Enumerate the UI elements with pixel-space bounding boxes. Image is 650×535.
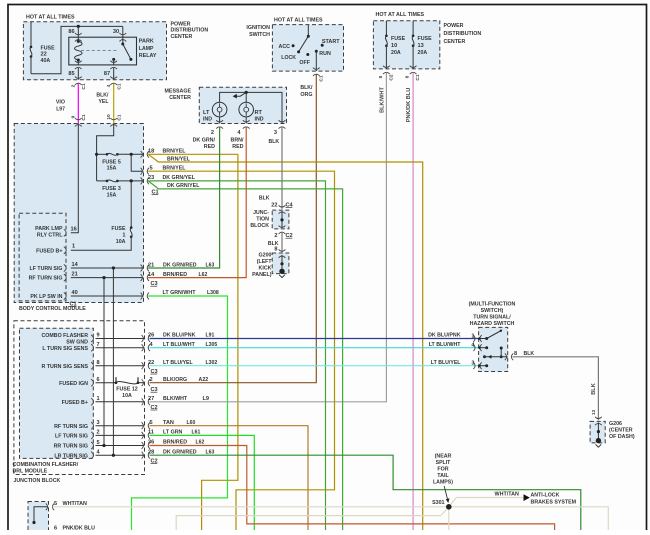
wire relay pin 85 to PDC edge: [77, 68, 79, 80]
svg-text:IND: IND: [255, 116, 264, 122]
svg-text:R TURN SIG SENS: R TURN SIG SENS: [42, 364, 89, 370]
G200 internal wire: [281, 255, 283, 270]
ignition switch arm: [299, 36, 309, 52]
BCM internal wire VIO to park lmp rly ctrl pin 16: [71, 124, 79, 233]
wire 4 LT BLU/WHT L305 to multi-function switch pin 4: [150, 347, 479, 349]
wire RUN contact to box edge: [315, 51, 317, 71]
svg-text:3: 3: [274, 130, 277, 136]
park lamp switch box (bottom left): [28, 502, 49, 532]
svg-text:10A: 10A: [116, 239, 126, 245]
fuse 13 20A: [412, 21, 414, 36]
svg-text:RLY CTRL: RLY CTRL: [37, 233, 63, 239]
svg-text:BRN/RED: BRN/RED: [163, 440, 187, 446]
fuse 10 20A: [385, 21, 387, 36]
svg-text:FOR: FOR: [437, 467, 448, 473]
svg-text:LR TURN SIG: LR TURN SIG: [54, 453, 88, 459]
body control module box: [14, 124, 143, 303]
comb flasher pin 9 COMBO FLASHER SW GND row: [96, 338, 145, 340]
svg-text:BLK/: BLK/: [300, 85, 313, 91]
svg-text:5: 5: [150, 420, 153, 426]
connector at relay pin 30: [119, 33, 126, 41]
svg-text:COMBO FLASHER: COMBO FLASHER: [42, 333, 89, 339]
svg-text:HOT AT ALL TIMES: HOT AT ALL TIMES: [274, 18, 323, 24]
svg-text:ORG: ORG: [300, 92, 312, 98]
wire fuse22 to bus: [31, 26, 123, 73]
svg-text:5: 5: [54, 501, 57, 507]
svg-text:OF DASH): OF DASH): [609, 434, 635, 440]
svg-text:14: 14: [72, 262, 79, 268]
svg-text:LF TURN SIG: LF TURN SIG: [30, 266, 63, 272]
node fuse bus at fuse 5 row: [95, 153, 98, 156]
svg-text:2: 2: [274, 233, 277, 239]
svg-text:10: 10: [391, 43, 397, 49]
svg-text:7: 7: [97, 342, 100, 348]
MFS contact pin 4: [479, 347, 487, 349]
svg-text:FUSED B+: FUSED B+: [36, 248, 63, 254]
arrow to anti-lock brakes system: [524, 494, 530, 501]
lamp RT IND: [239, 102, 254, 117]
svg-text:FUSE: FUSE: [391, 36, 405, 42]
svg-text:L60: L60: [187, 420, 196, 426]
connector BCM C1 exit fuse5 row: [141, 151, 149, 158]
svg-text:LT: LT: [203, 110, 210, 116]
fuse 12 10A: [115, 377, 117, 382]
svg-text:FUSE 5: FUSE 5: [102, 159, 121, 165]
svg-text:L305: L305: [206, 342, 218, 348]
svg-text:2: 2: [150, 377, 153, 383]
connector MFS pin 4: [473, 344, 481, 351]
connector at relay pin 87: [110, 61, 117, 69]
wire bus stub to RT IND: [245, 92, 247, 102]
junction block internal wire: [281, 211, 283, 228]
svg-text:3: 3: [97, 420, 100, 426]
svg-text:IGNITION: IGNITION: [246, 25, 270, 31]
svg-text:5: 5: [150, 165, 153, 171]
svg-text:RUN: RUN: [319, 51, 331, 57]
svg-text:DISTRIBUTION: DISTRIBUTION: [171, 28, 209, 34]
BCM internal branch to pin 5 exit: [131, 154, 143, 171]
svg-text:SWITCH: SWITCH: [249, 32, 270, 38]
svg-text:(CENTER: (CENTER: [609, 428, 633, 434]
connector at fuse 10 output: [383, 66, 390, 74]
wire 26 DK BLU/PNK L91 to multi-function switch pin 1: [150, 338, 479, 340]
svg-text:8: 8: [378, 75, 384, 78]
svg-text:BLK: BLK: [591, 383, 597, 395]
svg-text:CENTER: CENTER: [169, 95, 191, 101]
junction block pass-through box (C4/C2): [272, 210, 289, 229]
svg-text:4: 4: [106, 84, 112, 87]
comb flasher pin 1 FUSED B+ row: [96, 401, 145, 403]
svg-text:L TURN SIG SENS: L TURN SIG SENS: [42, 346, 88, 352]
svg-text:BLOCK: BLOCK: [250, 223, 269, 229]
wire relay pin 87 to PDC edge: [113, 68, 115, 80]
svg-text:FUSE: FUSE: [111, 226, 125, 232]
svg-text:RED: RED: [232, 144, 243, 150]
svg-text:PNK/DK BLU: PNK/DK BLU: [63, 526, 95, 530]
wire BLK msg center pin 3 to junction block: [281, 127, 283, 209]
wire DK GRN/YEL branch to bottom: [148, 181, 342, 530]
svg-text:11: 11: [148, 430, 154, 436]
svg-text:HOT AT ALL TIMES: HOT AT ALL TIMES: [376, 12, 425, 18]
connector at relay pin 85: [75, 61, 82, 69]
fuse 1 10A and wire to fused B+ pin 1: [130, 181, 132, 228]
svg-text:22: 22: [148, 360, 154, 366]
ground G200 box: [272, 253, 289, 274]
node RR turn sig feed from BCM: [102, 444, 105, 447]
svg-text:LF TURN SIG: LF TURN SIG: [55, 434, 88, 440]
svg-text:LAMP: LAMP: [139, 46, 154, 52]
ignition switch box: [272, 25, 343, 72]
arrow to DRL module (off page): [237, 92, 247, 96]
BCM pin 1 arc: [64, 247, 66, 254]
wire black link BCM RF to RR turn sig: [103, 278, 105, 446]
svg-text:CENTER: CENTER: [444, 39, 466, 45]
fuse 5 15A row: [97, 153, 107, 155]
wire LT IND to box edge: [219, 117, 221, 124]
svg-text:40: 40: [72, 290, 78, 296]
wire 14 BRN/RED L62 to RT IND: [148, 127, 246, 278]
fuse 3 15A row: [97, 180, 107, 182]
connector msg center pin 2: [216, 120, 223, 128]
svg-text:WHT/TAN: WHT/TAN: [495, 492, 519, 498]
svg-text:PK LP SW IN: PK LP SW IN: [30, 294, 62, 300]
svg-text:RF TURN SIG: RF TURN SIG: [29, 276, 63, 282]
svg-text:DK GRN/RED: DK GRN/RED: [163, 449, 197, 455]
svg-text:ANTI-LOCK: ANTI-LOCK: [531, 492, 560, 498]
connector at fuse 13 output: [410, 66, 417, 74]
svg-text:BLK: BLK: [269, 139, 280, 145]
callout line to splice S301: [444, 486, 447, 500]
svg-text:22: 22: [41, 52, 47, 58]
svg-text:DK GRN/YEL: DK GRN/YEL: [167, 183, 200, 189]
svg-text:5: 5: [97, 440, 100, 446]
svg-text:FUSE 12: FUSE 12: [116, 386, 138, 392]
svg-text:BLK/ORG: BLK/ORG: [163, 377, 187, 383]
svg-text:BRAKES SYSTEM: BRAKES SYSTEM: [531, 499, 577, 505]
svg-text:1: 1: [471, 333, 474, 339]
svg-text:DK GRN/: DK GRN/: [193, 137, 216, 143]
svg-text:RED: RED: [204, 144, 215, 150]
relay coil: [77, 37, 79, 41]
svg-text:18: 18: [148, 149, 154, 155]
svg-text:27: 27: [148, 396, 154, 402]
svg-text:8: 8: [514, 351, 517, 357]
svg-text:16: 16: [71, 227, 77, 233]
wire VIO L97 from relay 85 to BCM: [77, 84, 79, 124]
svg-text:L9: L9: [203, 396, 210, 402]
svg-text:30: 30: [113, 29, 119, 35]
wire BLK/WHT from fuse 10 to junction block fused B+: [283, 73, 386, 402]
wire 28 DK GRN/RED L63 left rear turn signal: [150, 455, 581, 530]
svg-text:28: 28: [148, 449, 154, 455]
power distribution center box (right): [373, 21, 439, 69]
relay internal dashed link: [81, 49, 118, 51]
svg-text:9: 9: [71, 115, 77, 118]
svg-text:S301: S301: [432, 500, 444, 506]
ignition contact RUN: [315, 50, 318, 53]
svg-text:LT BLU/YEL: LT BLU/YEL: [431, 360, 461, 366]
svg-text:8: 8: [97, 360, 100, 366]
node bus to coil: [77, 25, 80, 28]
svg-text:36: 36: [148, 440, 154, 446]
svg-text:SW GND: SW GND: [66, 339, 88, 345]
svg-text:6: 6: [54, 526, 57, 530]
BCM PK LP SW IN pin 40 row: [71, 295, 144, 297]
wire WHT/TAN branch to lower left: [176, 507, 449, 530]
svg-text:LT BLU/YEL: LT BLU/YEL: [163, 360, 193, 366]
wire 5 TAN L60 right front turn signal: [150, 426, 309, 530]
svg-text:LAMPS): LAMPS): [433, 480, 453, 486]
svg-text:BRN/: BRN/: [231, 137, 244, 143]
wire 5 BRN/YEL park lamp feed 2: [148, 171, 334, 530]
ground G200 terminal: [279, 269, 284, 274]
svg-text:BRN/YEL: BRN/YEL: [163, 149, 187, 155]
connector msg center pin 4: [243, 120, 250, 128]
svg-text:3: 3: [471, 361, 474, 367]
svg-text:HOT AT ALL TIMES: HOT AT ALL TIMES: [26, 14, 75, 20]
G206 internal wire: [597, 423, 599, 440]
svg-text:PANEL): PANEL): [252, 272, 272, 278]
svg-text:DK GRN/RED: DK GRN/RED: [163, 262, 197, 268]
ground G206 terminal: [596, 438, 601, 443]
svg-text:15A: 15A: [107, 192, 117, 198]
wire BLK/ORG from ignition RUN to junction block fused ign: [299, 75, 316, 383]
svg-text:L63: L63: [206, 262, 215, 268]
svg-text:FUSED B+: FUSED B+: [62, 400, 89, 406]
svg-text:G200: G200: [259, 253, 272, 259]
svg-text:2: 2: [71, 84, 77, 87]
splice S301: [446, 504, 452, 510]
ground G206 box: [590, 421, 605, 443]
wire 36 BRN/RED L62 right rear turn signal: [150, 446, 555, 531]
svg-text:1: 1: [97, 396, 100, 402]
node inside G206: [597, 430, 600, 433]
svg-text:PNK/DK BLU: PNK/DK BLU: [406, 88, 412, 123]
svg-text:DRL MODULE: DRL MODULE: [13, 468, 48, 474]
svg-text:MESSAGE: MESSAGE: [165, 88, 192, 94]
wire BLK/YEL from relay 87 to BCM: [113, 84, 115, 124]
connector msg center pin 3: [279, 120, 286, 128]
svg-text:LT BLU/WHT: LT BLU/WHT: [163, 342, 195, 348]
wire 22 LT BLU/YEL L302 to multi-function switch pin 3: [150, 365, 479, 367]
BCM RF TURN SIG pin 21 row: [71, 277, 144, 279]
svg-text:1: 1: [122, 232, 125, 238]
svg-text:FUSE: FUSE: [418, 36, 432, 42]
ignition switch feed stub: [307, 25, 309, 37]
wire 27 BLK/WHT L9 (colored segment): [150, 401, 284, 403]
connector at G200: [279, 249, 286, 257]
svg-text:86: 86: [68, 29, 74, 35]
node LF turn sig to LR feed: [112, 266, 115, 269]
svg-text:RR TURN SIG: RR TURN SIG: [54, 444, 88, 450]
svg-text:A22: A22: [199, 377, 209, 383]
body control module inner pin box: [19, 213, 66, 301]
wire LT GRN/WHT L308 park lamp switch input: [132, 296, 228, 530]
svg-text:21: 21: [72, 272, 78, 278]
svg-text:TURN SIGNAL/: TURN SIGNAL/: [473, 315, 511, 321]
svg-text:LT BLU/WHT: LT BLU/WHT: [429, 342, 461, 348]
svg-text:JUNC-: JUNC-: [253, 210, 269, 216]
svg-text:L91: L91: [206, 333, 215, 339]
connector MFS pin 1: [473, 335, 481, 342]
wire BRN/YEL feed 1 descends and exits bottom: [202, 154, 238, 530]
svg-text:85: 85: [68, 71, 74, 77]
svg-text:TAN: TAN: [163, 420, 174, 426]
ignition contact ACC: [292, 44, 295, 47]
svg-text:20A: 20A: [418, 50, 428, 56]
svg-text:C2: C2: [389, 74, 395, 80]
park lamp switch internal wire: [34, 507, 48, 523]
svg-text:G206: G206: [609, 421, 622, 427]
svg-text:JUNCTION BLOCK: JUNCTION BLOCK: [14, 478, 61, 484]
power distribution center box (left): [23, 22, 166, 80]
svg-text:C1: C1: [117, 83, 123, 89]
wire 18 BRN/YEL park lamp feed 1: [148, 153, 238, 155]
svg-text:RT: RT: [255, 110, 263, 116]
svg-text:10A: 10A: [122, 393, 132, 399]
svg-text:SPLIT: SPLIT: [436, 460, 451, 466]
message center box: [199, 87, 286, 123]
svg-text:DK BLU/PNK: DK BLU/PNK: [163, 333, 195, 339]
comb flasher pin 3 RF TURN SIG row: [96, 425, 145, 427]
svg-text:2: 2: [211, 130, 214, 136]
wire black link BCM LF to LR turn sig: [112, 268, 114, 455]
svg-text:L63: L63: [206, 449, 215, 455]
svg-text:POWER: POWER: [171, 21, 191, 27]
svg-text:L61: L61: [192, 430, 201, 436]
connector at G206: [595, 417, 602, 425]
svg-text:26: 26: [148, 333, 154, 339]
node bus above RT IND: [245, 91, 248, 94]
svg-text:(MULTI-FUNCTION: (MULTI-FUNCTION: [469, 302, 516, 308]
svg-text:BRN/YEL: BRN/YEL: [163, 165, 187, 171]
connector at PDC exit pin 85: [75, 77, 82, 85]
svg-text:C1: C1: [319, 75, 325, 81]
comb flasher pin 5 RR TURN SIG row: [96, 445, 145, 447]
wire 23 DK GRN/YEL park lamp feed 3: [148, 181, 325, 530]
comb flasher pin 6 FUSED IGN row: [96, 382, 117, 384]
svg-text:8: 8: [405, 75, 411, 78]
svg-text:C1: C1: [81, 114, 87, 120]
park lamp relay box: [69, 37, 137, 65]
connector BCM C1 exit fuse3 row: [141, 178, 149, 185]
svg-text:COMBINATION FLASHER/: COMBINATION FLASHER/: [13, 462, 79, 468]
fuse 22 40A: [30, 22, 32, 47]
MFS hazard common tie: [500, 348, 502, 357]
svg-text:HAZARD SWITCH: HAZARD SWITCH: [470, 321, 515, 327]
combination flasher / DRL module box: [20, 328, 94, 458]
svg-text:KICK: KICK: [259, 266, 272, 272]
svg-text:BODY CONTROL MODULE: BODY CONTROL MODULE: [19, 306, 86, 312]
wire WHT/TAN branch to anti-lock brakes: [449, 498, 523, 507]
message center bus wire: [220, 92, 282, 123]
node fuse 5 output split: [130, 153, 133, 156]
svg-text:LT GRN/WHT: LT GRN/WHT: [163, 290, 197, 296]
BCM LF TURN SIG pin 14 row: [71, 267, 144, 269]
svg-text:RF TURN SIG: RF TURN SIG: [54, 424, 88, 430]
svg-text:TION: TION: [256, 217, 269, 223]
comb flasher pin 7 L TURN SIG SENS row: [96, 347, 145, 349]
connector at ignition output C1: [313, 68, 320, 76]
svg-text:SWITCH): SWITCH): [481, 308, 504, 314]
connector MFS pin 8: [505, 353, 513, 360]
MFS contact pin 3: [479, 365, 487, 367]
svg-text:(NEAR: (NEAR: [435, 454, 452, 460]
connector junction block C4: [279, 205, 286, 213]
svg-text:(LEFT: (LEFT: [257, 259, 272, 265]
svg-text:C1: C1: [415, 74, 421, 80]
svg-text:BRN/YEL: BRN/YEL: [167, 156, 191, 162]
connector BCM C1 exit pin5 row: [141, 168, 149, 175]
multi-function switch box: [479, 327, 508, 371]
svg-text:BLK/WHT: BLK/WHT: [380, 87, 386, 113]
lamp LT IND: [212, 102, 227, 117]
ignition contact START: [321, 44, 324, 47]
svg-text:2: 2: [97, 430, 100, 436]
svg-text:FUSE: FUSE: [41, 45, 55, 51]
node LR turn sig feed from BCM: [112, 454, 115, 457]
svg-text:23: 23: [148, 175, 154, 181]
svg-text:21: 21: [148, 262, 154, 268]
svg-text:BLK/WHT: BLK/WHT: [163, 396, 188, 402]
svg-text:15A: 15A: [107, 166, 117, 172]
svg-text:22: 22: [271, 202, 277, 208]
svg-text:FUSE 3: FUSE 3: [102, 186, 121, 192]
svg-text:START: START: [322, 39, 340, 45]
connector at relay pin 86: [75, 33, 82, 41]
comb flasher pin 4 LR TURN SIG row: [96, 454, 145, 456]
wire BLK junction block to G200: [281, 232, 283, 253]
wire BLK from MFS to G206: [513, 357, 599, 420]
svg-text:YEL: YEL: [99, 99, 110, 105]
svg-text:POWER: POWER: [444, 23, 464, 29]
svg-text:9: 9: [97, 333, 100, 339]
svg-text:13: 13: [591, 410, 597, 416]
svg-text:DK GRN/YEL: DK GRN/YEL: [163, 175, 196, 181]
svg-text:87: 87: [104, 71, 110, 77]
node inside G200: [280, 262, 283, 265]
svg-text:IND: IND: [203, 116, 212, 122]
svg-text:LT GRN: LT GRN: [163, 430, 182, 436]
connector BCM C3 exit LF row: [141, 265, 149, 272]
svg-text:DISTRIBUTION: DISTRIBUTION: [444, 31, 482, 37]
svg-text:20A: 20A: [391, 50, 401, 56]
node fuse 3 output split: [130, 179, 133, 182]
svg-text:14: 14: [148, 272, 155, 278]
svg-text:RELAY: RELAY: [139, 53, 157, 59]
svg-text:BLK: BLK: [524, 351, 535, 357]
BCM pin 16 arc: [64, 229, 66, 236]
svg-text:L302: L302: [206, 360, 218, 366]
wire bus drop to relay pin 86: [77, 26, 79, 37]
connector BCM C1 exit pin40 row: [141, 293, 149, 300]
connector BCM C3 exit RF row: [141, 274, 149, 281]
svg-text:FUSED IGN: FUSED IGN: [59, 381, 88, 387]
connector MFS pin 3: [473, 362, 481, 369]
svg-text:PARK LMP: PARK LMP: [35, 226, 63, 232]
svg-text:8: 8: [274, 246, 277, 252]
svg-text:VIO: VIO: [56, 100, 66, 106]
connector park lamp switch pin 5: [46, 503, 54, 510]
svg-text:6: 6: [97, 377, 100, 383]
svg-text:BLK/: BLK/: [96, 92, 109, 98]
connector BCM pin for BLK/YEL: [110, 118, 117, 126]
relay N.O. contact to pin 87: [112, 58, 115, 61]
wire WHT/TAN splice drop off page: [448, 507, 450, 530]
wire 21 DK GRN/RED L63 to LT IND: [148, 127, 219, 268]
svg-text:LOCK: LOCK: [281, 55, 296, 61]
wire PNK/DK BLU from fuse 13 down off page: [412, 73, 414, 531]
